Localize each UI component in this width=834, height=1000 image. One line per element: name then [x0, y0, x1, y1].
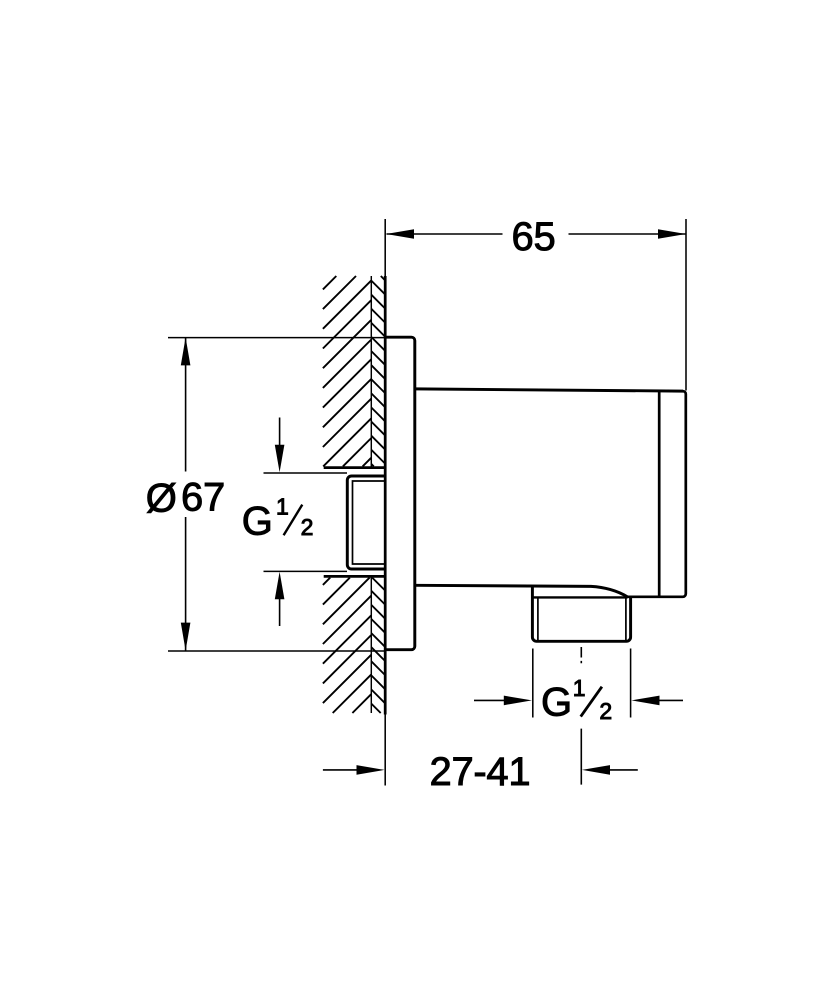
svg-text:2: 2 — [301, 514, 314, 540]
svg-text:67: 67 — [181, 476, 225, 520]
dim 67 extension top — [168, 337, 385, 339]
inlet nipple chamfer inner — [353, 481, 387, 564]
end cap — [628, 391, 686, 597]
dim 27-41 line right — [610, 769, 638, 771]
dim 67 extension bottom — [168, 650, 385, 652]
svg-text:65: 65 — [512, 215, 556, 259]
wall opening top edge — [324, 466, 385, 469]
body top edge — [415, 389, 683, 391]
wall hatch main — [323, 276, 371, 713]
svg-text:27-41: 27-41 — [430, 750, 531, 794]
dim 65 line — [387, 233, 686, 235]
dim 27-41 line left — [323, 769, 357, 771]
svg-text:G: G — [242, 499, 273, 543]
body bottom edge with outlet curve — [415, 585, 628, 597]
dim 67 arrow bottom — [181, 623, 191, 651]
dim 67 arrow top — [181, 337, 191, 365]
outlet G1/2 arrow right — [660, 699, 684, 701]
flange (escutcheon side view) — [385, 337, 415, 650]
inlet G1/2 arrow down — [279, 418, 281, 447]
inlet nipple G1/2 outer — [347, 476, 386, 569]
outlet centerline — [580, 647, 582, 785]
inlet G1/2 arrow up — [279, 598, 281, 626]
dim 65 arrow right — [658, 229, 686, 239]
wall opening bottom edge — [324, 575, 385, 578]
inlet G1/2 extension top — [264, 472, 348, 474]
outlet nut outline — [532, 586, 630, 641]
dim 65 extension line right — [685, 219, 687, 391]
dim 65 arrow left — [386, 229, 414, 239]
dim 65 extension line left — [384, 219, 386, 276]
dim 67 line — [185, 337, 187, 650]
svg-text:2: 2 — [599, 698, 612, 724]
nut top line — [532, 596, 627, 598]
svg-text:1: 1 — [573, 675, 586, 701]
outlet G1/2 arrow left — [474, 699, 504, 701]
inlet G1/2 extension bottom — [264, 570, 348, 572]
nut chamfer lines — [538, 597, 626, 641]
wall hatch plaster strip — [371, 276, 385, 713]
wall plaster boundary line — [370, 276, 372, 713]
wall face line — [384, 276, 387, 715]
dim 27-41 extension left (wall face) — [384, 712, 386, 786]
svg-text:1: 1 — [276, 493, 289, 519]
outlet G1/2 extension left — [532, 649, 534, 718]
svg-text:Ø: Ø — [146, 477, 177, 521]
svg-text:G: G — [541, 680, 572, 724]
outlet G1/2 extension right — [630, 649, 632, 718]
